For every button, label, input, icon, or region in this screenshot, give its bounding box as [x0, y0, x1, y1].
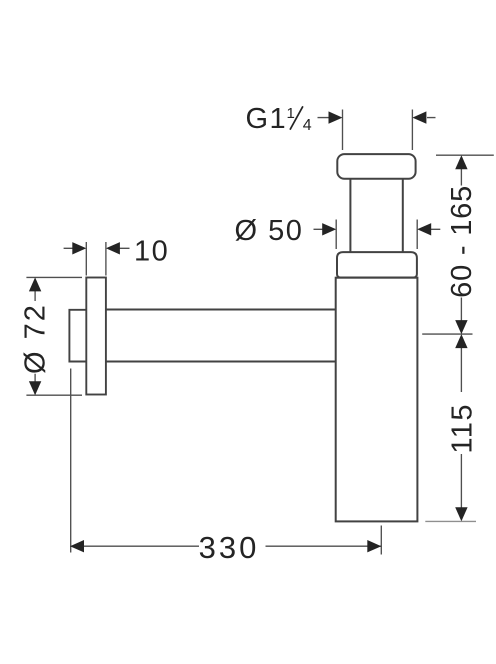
svg-text:330: 330 [199, 530, 260, 565]
svg-text:G1: G1 [246, 103, 288, 135]
svg-text:Ø 50: Ø 50 [235, 215, 304, 247]
svg-text:10: 10 [134, 235, 169, 267]
svg-text:1: 1 [287, 105, 295, 122]
svg-text:60 - 165: 60 - 165 [446, 185, 478, 298]
svg-text:4: 4 [303, 117, 312, 134]
svg-text:115: 115 [447, 403, 479, 454]
svg-text:Ø 72: Ø 72 [20, 303, 52, 374]
